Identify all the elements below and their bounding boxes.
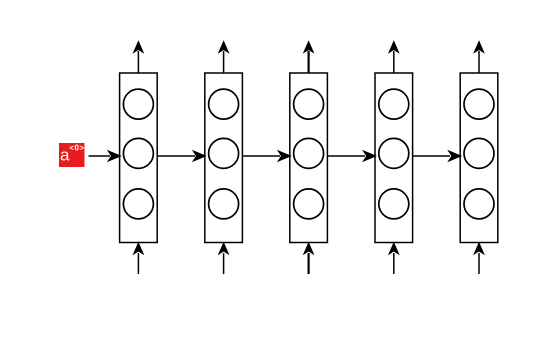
svg-text:<0>: <0> xyxy=(69,143,84,152)
